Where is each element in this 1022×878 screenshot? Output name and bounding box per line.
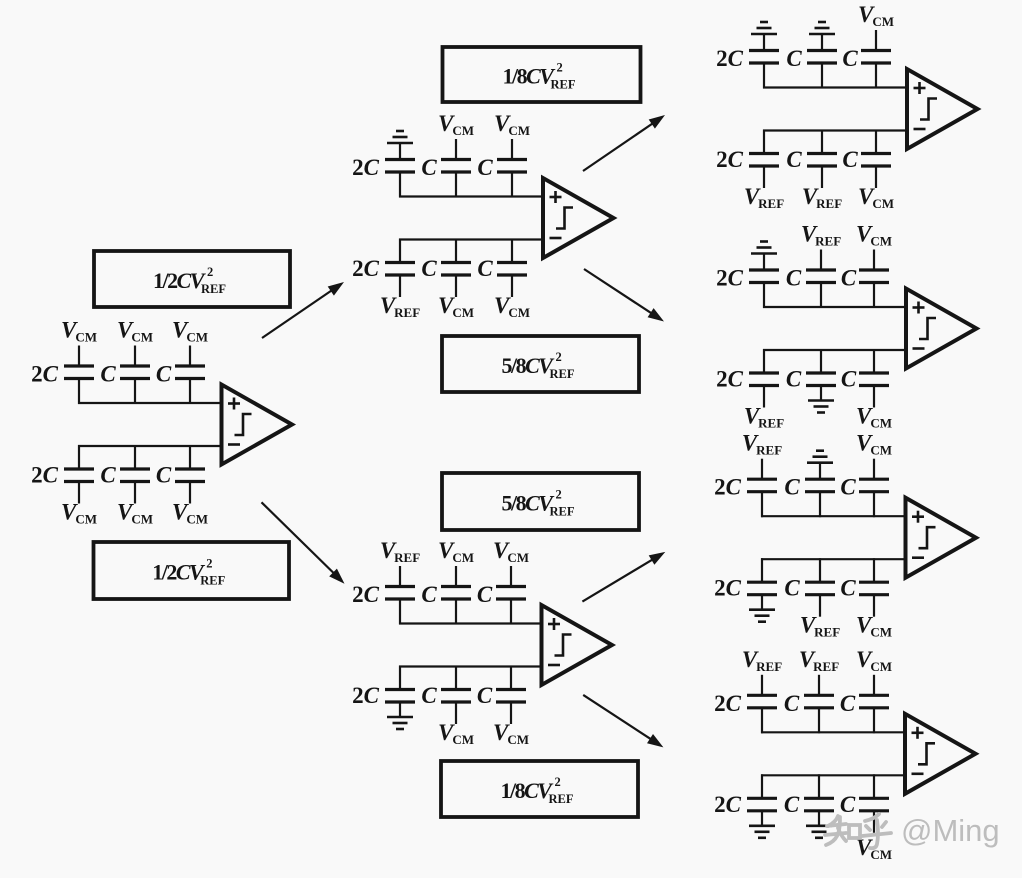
wire top bus to comparator + stage R3 [761,515,907,517]
arrow stage MT to stage R1 [583,115,665,171]
svg-text:REF: REF [549,792,574,806]
comparator stage R4 [905,714,976,794]
wire bottom bus to comparator - stage MB [399,665,543,667]
capacitor C top bank stage R2 [859,250,889,309]
svg-text:REF: REF [200,574,225,588]
ground above cap 1 top bank stage R1 [751,22,777,34]
svg-text:C: C [840,792,856,817]
svg-text:2C: 2C [31,362,59,387]
capacitor C bottom bank stage L [175,445,205,504]
capacitor C bottom bank stage R1 [861,130,891,189]
svg-text:C: C [840,691,856,716]
svg-text:2C: 2C [714,576,742,601]
svg-text:2C: 2C [716,266,744,291]
capacitor 2C top bank stage R4 [747,675,777,734]
svg-text:5/8CV: 5/8CV [502,353,556,378]
svg-text:2C: 2C [31,463,59,488]
svg-text:2C: 2C [714,792,742,817]
svg-text:2: 2 [556,488,562,502]
svg-text:2: 2 [207,265,213,279]
capacitor C top bank stage R4 [804,675,834,734]
ground above cap 1 top bank stage R2 [751,242,777,254]
capacitor C bottom bank stage R4 [804,774,834,825]
svg-text:2C: 2C [352,256,380,281]
capacitor C top bank stage MT [441,139,471,198]
capacitor C bottom bank stage R3 [859,558,889,617]
capacitor 2C bottom bank stage R2 [749,349,779,408]
capacitor C bottom bank stage MT [497,239,527,298]
arrow stage MB to stage R4 [583,695,663,748]
svg-text:2: 2 [206,557,212,571]
energy box 5/8CV2REF (upper middle) [442,336,639,392]
svg-text:C: C [421,683,437,708]
capacitor 2C bottom bank stage MT [385,239,415,298]
svg-text:C: C [842,147,858,172]
svg-text:2C: 2C [352,582,380,607]
svg-text:2C: 2C [716,367,744,392]
capacitor C top bank stage L [175,346,205,405]
svg-text:C: C [784,576,800,601]
svg-text:C: C [786,46,802,71]
wire bottom bus to comparator - stage MT [399,238,544,240]
svg-text:@Ming: @Ming [901,813,1000,848]
capacitor 2C bottom bank stage MB [385,666,415,717]
svg-text:REF: REF [201,282,226,296]
wire bottom bus to comparator - stage R1 [763,129,908,131]
capacitor C bottom bank stage L [120,445,150,504]
capacitor 2C top bank stage R2 [749,254,779,309]
svg-text:2: 2 [555,775,561,789]
svg-text:C: C [786,266,802,291]
comparator stage MB [542,605,613,685]
capacitor C top bank stage R4 [859,675,889,734]
capacitor 2C top bank stage L [64,346,94,405]
svg-text:C: C [840,576,856,601]
wire top bus to comparator + stage MB [399,622,543,624]
svg-text:C: C [842,46,858,71]
svg-text:C: C [784,691,800,716]
comparator stage R1 [907,69,978,149]
energy box 1/2CV2REF (top left) [94,251,290,307]
energy box 5/8CV2REF (lower middle) [442,473,639,530]
svg-text:C: C [421,155,437,180]
svg-text:REF: REF [551,78,576,92]
capacitor C top bank stage MB [496,566,526,625]
capacitor C bottom bank stage MB [441,666,471,725]
capacitor C top bank stage MT [497,139,527,198]
svg-text:C: C [477,683,493,708]
capacitor C top bank stage R1 [807,34,837,89]
svg-text:C: C [841,367,857,392]
wire bottom bus to comparator - stage R2 [763,349,907,351]
capacitor C top bank stage R1 [861,30,891,89]
svg-text:C: C [421,582,437,607]
svg-text:C: C [100,463,116,488]
capacitor C top bank stage R3 [805,463,835,518]
wire top bus to comparator + stage L [78,402,223,404]
ground below cap 1 bottom bank stage R3 [749,610,775,622]
capacitor 2C top bank stage MB [385,566,415,625]
comparator stage R2 [906,289,977,369]
svg-text:2C: 2C [352,155,380,180]
svg-text:C: C [477,582,493,607]
capacitor C top bank stage R3 [859,459,889,518]
capacitor C bottom bank stage MT [441,239,471,298]
wire top bus to comparator + stage R1 [763,86,908,88]
wire top bus to comparator + stage R2 [763,306,907,308]
ground above cap 1 top bank stage MT [387,131,413,143]
svg-text:2C: 2C [352,683,380,708]
svg-text:C: C [784,475,800,500]
comparator stage L [222,385,293,465]
capacitor C top bank stage R2 [806,250,836,309]
arrow stage MT to stage R2 [584,269,664,322]
capacitor 2C top bank stage R3 [747,459,777,518]
ground above cap 2 top bank stage R3 [807,451,833,463]
wire top bus to comparator + stage MT [399,195,544,197]
arrow stage L to stage MB [262,502,345,583]
wire bottom bus to comparator - stage R3 [761,558,907,560]
capacitor 2C top bank stage R1 [749,34,779,89]
capacitor C top bank stage L [120,346,150,405]
energy box 1/8CV2REF (bottom middle) [441,761,638,817]
svg-text:1/8CV: 1/8CV [501,778,555,803]
svg-text:REF: REF [550,367,575,381]
svg-text:C: C [421,256,437,281]
svg-text:2C: 2C [714,475,742,500]
svg-text:2C: 2C [716,147,744,172]
ground above cap 2 top bank stage R1 [809,22,835,34]
ground below cap 1 bottom bank stage MB [387,717,413,729]
capacitor 2C bottom bank stage R1 [749,130,779,189]
capacitor C bottom bank stage R4 [859,774,889,833]
comparator stage MT [543,178,614,258]
capacitor 2C bottom bank stage R3 [747,558,777,609]
svg-text:2C: 2C [714,691,742,716]
svg-text:C: C [784,792,800,817]
svg-text:C: C [477,256,493,281]
energy box 1/2CV2REF (bottom left) [94,542,290,599]
capacitor 2C top bank stage MT [385,143,415,198]
arrow stage MB to stage R3 [582,552,665,602]
capacitor 2C bottom bank stage L [64,445,94,504]
wire bottom bus to comparator - stage L [78,445,223,447]
svg-text:1/8CV: 1/8CV [503,64,557,89]
ground below cap 1 bottom bank stage R4 [749,826,775,838]
svg-text:C: C [786,147,802,172]
svg-text:2: 2 [556,350,562,364]
capacitor 2C bottom bank stage R4 [747,774,777,825]
svg-text:1/2CV: 1/2CV [153,268,207,293]
svg-text:C: C [786,367,802,392]
arrow stage L to stage MT [262,282,344,338]
capacitor C bottom bank stage R2 [859,349,889,408]
svg-text:1/2CV: 1/2CV [152,560,206,585]
capacitor C top bank stage MB [441,566,471,625]
wire top bus to comparator + stage R4 [761,731,906,733]
ground below cap 2 bottom bank stage R4 [806,826,832,838]
watermark 知乎 @Ming [825,814,891,848]
svg-text:2: 2 [557,61,563,75]
capacitor C bottom bank stage R2 [806,349,836,400]
capacitor C bottom bank stage MB [496,666,526,725]
capacitor C bottom bank stage R1 [807,130,837,189]
comparator stage R3 [906,498,977,578]
capacitor C bottom bank stage R3 [805,558,835,617]
ground below cap 2 bottom bank stage R2 [808,401,834,413]
svg-text:C: C [100,362,116,387]
svg-text:C: C [156,362,172,387]
svg-text:REF: REF [550,505,575,519]
svg-text:C: C [840,475,856,500]
svg-text:C: C [841,266,857,291]
svg-text:5/8CV: 5/8CV [502,491,556,516]
svg-text:2C: 2C [716,46,744,71]
svg-text:C: C [477,155,493,180]
energy box 1/8CV2REF (top middle) [443,47,641,102]
svg-text:C: C [156,463,172,488]
wire bottom bus to comparator - stage R4 [761,774,906,776]
